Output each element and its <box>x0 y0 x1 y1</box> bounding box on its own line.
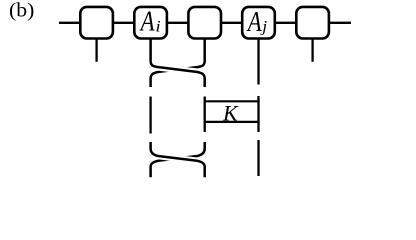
gate K: bottom edge <box>205 121 260 123</box>
wire: horizontal MPS bond line <box>59 22 351 24</box>
svg-text:A: A <box>246 5 262 37</box>
svg-text:K: K <box>222 101 239 126</box>
crossing 2: over strand white casing <box>151 144 205 176</box>
wire: Aj line middle segment / K box right side <box>257 96 259 132</box>
wire: dashed segment middle line / K box left side <box>204 97 206 133</box>
tensor A5 box <box>296 7 329 39</box>
crossing 1: over strand white casing <box>151 40 205 87</box>
svg-text:j: j <box>260 17 267 35</box>
wire: physical leg of tensor A1 <box>95 39 97 62</box>
crossing 2: over strand <box>151 142 205 177</box>
svg-text:(b): (b) <box>9 0 34 21</box>
svg-text:A: A <box>139 5 155 37</box>
wire: leg of tensor Aj upper segment <box>257 39 259 85</box>
crossing 1: over strand (from tensor A2/Ai down-right) <box>151 39 205 88</box>
tensor Ai box <box>134 7 167 39</box>
svg-text:i: i <box>156 18 161 36</box>
tensor A3 box <box>188 7 221 39</box>
tensor A1 box <box>80 7 113 39</box>
wire: Aj line lower segment <box>257 140 259 176</box>
crossing 1: under strand (from tensor A3 down-left) <box>151 39 205 88</box>
crossing 2: under strand <box>151 142 205 177</box>
tensor Aj box <box>242 7 275 39</box>
tensor Ai label <box>139 5 161 37</box>
gate K: top edge <box>205 100 260 102</box>
tensor Aj label <box>246 5 267 37</box>
gate K: label <box>222 101 239 126</box>
label (b) <box>9 0 34 21</box>
wire: physical leg of tensor A5 <box>311 39 313 62</box>
wire: dashed segment left line <box>149 97 151 134</box>
